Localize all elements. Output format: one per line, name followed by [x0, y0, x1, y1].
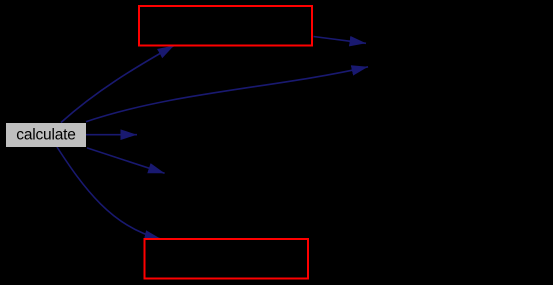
wire edge top red node to hidden right node: [314, 37, 367, 44]
wire edge calculate to hidden lower node: [87, 148, 165, 173]
wire edge calculate to bottom red node: [57, 147, 161, 239]
wire edge calculate to hidden middle node: [86, 134, 137, 136]
node bottom red box (truncated callee): [145, 239, 309, 279]
node top red box (truncated callee): [139, 6, 312, 46]
wire edge calculate to hidden right node: [86, 67, 368, 122]
node calculate (current function, gray): [6, 123, 86, 147]
svg-text:calculate: calculate: [16, 127, 75, 144]
wire edge calculate to top red node: [61, 46, 174, 123]
